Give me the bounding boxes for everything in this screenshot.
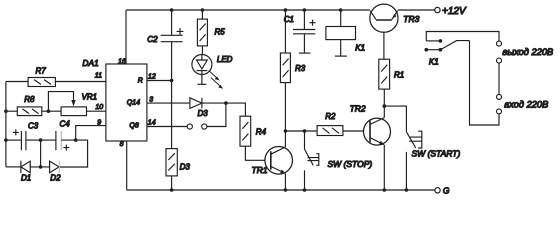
ground bar K1 (335, 55, 347, 57)
svg-text:14: 14 (148, 120, 156, 127)
svg-text:G: G (443, 186, 450, 196)
node dot D3/Q8 join (224, 101, 228, 105)
resistor R3 (280, 10, 305, 83)
wire mid node to R2 (285, 130, 317, 132)
wire TR3 base to R1 (383, 20, 385, 59)
wire left rail to C3 (6, 139, 22, 141)
relay coil K1 (326, 10, 365, 56)
wire TR2 emitter to bottom rail (383, 145, 385, 190)
wire pin16 stub from top rail to DA1 (125, 10, 127, 64)
node dot TR2 emitter / bottom rail (383, 188, 387, 192)
capacitor C2 (147, 10, 183, 44)
ground bar C1 (299, 52, 311, 54)
node dot C1 on top rail (303, 8, 307, 12)
node dot SW STOP tap (303, 129, 307, 133)
node dot left rail / C3 wire (4, 138, 8, 142)
wire pin3 Q14 to D3 diode (147, 102, 190, 104)
capacitor C1 (284, 10, 316, 34)
resistor R4 (240, 116, 267, 146)
transistor TR1 (252, 147, 293, 176)
svg-text:R3: R3 (295, 64, 306, 73)
wire pin8 DA1 to bottom rail (126, 141, 128, 190)
wire C1 to ground bar (303, 34, 305, 53)
wire R8 to VR1 (42, 110, 61, 112)
svg-text:10: 10 (95, 104, 103, 111)
node dot C3/C4 midpoint (39, 138, 43, 142)
top rail wire (V+ switched) (126, 9, 435, 11)
svg-text:D3: D3 (180, 162, 191, 171)
wire D1 to D2 (30, 166, 49, 168)
svg-text:R4: R4 (256, 128, 267, 137)
wire R3 bottom to mid node (284, 83, 286, 131)
svg-text:16: 16 (118, 58, 126, 65)
wire R2 to TR2 base (343, 130, 370, 132)
wire C3 to C4 (26, 139, 56, 141)
transistor TR3 (PNP) (370, 4, 420, 32)
svg-text:SW (START): SW (START) (412, 149, 461, 159)
switch SW (STOP) (305, 131, 373, 190)
svg-text:+12V: +12V (442, 6, 467, 17)
wire выход bottom to вход top (498, 63, 500, 94)
svg-text:вход 220В: вход 220В (504, 99, 548, 109)
resistor R2 (317, 112, 343, 136)
wire C4 right to riser (60, 140, 88, 167)
svg-text:D3: D3 (198, 109, 209, 118)
wire R1 to TR2 collector node (383, 89, 385, 106)
switch SW (START) (406, 131, 460, 190)
svg-text:K1: K1 (355, 44, 365, 53)
svg-text:R5: R5 (215, 28, 226, 37)
wire C2 bottom / reset node vertical (171, 42, 173, 149)
wire TR1 collector up to mid node (284, 131, 286, 147)
wire K1 common to вход terminal (470, 41, 500, 125)
svg-text:SW (STOP): SW (STOP) (328, 159, 373, 169)
wire pin14 Q8 to jumper (147, 126, 187, 128)
svg-text:C1: C1 (284, 15, 294, 24)
terminal вход top (497, 94, 502, 99)
node dot pin12 / C2 (170, 79, 174, 83)
terminal выход top (497, 41, 502, 46)
IC DA1 (CD4060) (82, 58, 155, 148)
svg-text:K1: K1 (429, 58, 439, 67)
node dot R3 on top rail (284, 8, 288, 12)
svg-text:LED: LED (217, 55, 233, 64)
svg-text:R8: R8 (24, 95, 35, 104)
node dot R1/TR2/SW START (383, 104, 387, 108)
wire pin11 R7 to DA1 (55, 81, 106, 83)
svg-text:C4: C4 (60, 120, 71, 129)
resistor R8 (17, 95, 42, 115)
wire R7 left to left rail (6, 81, 28, 83)
svg-text:TR2: TR2 (350, 103, 366, 113)
transistor TR2 (350, 103, 391, 145)
potentiometer VR1 (48, 92, 97, 116)
node dot K1 coil on top rail (339, 8, 343, 12)
wire pin12 R to C2 line (147, 80, 172, 82)
jumper terminal circle left (187, 124, 192, 129)
svg-text:VR1: VR1 (82, 92, 98, 101)
svg-text:R: R (138, 77, 143, 84)
node dot D1/D2 to C3/C4 (39, 165, 43, 169)
capacitor C4 (56, 120, 70, 151)
svg-text:D1: D1 (21, 174, 31, 183)
terminal +12V (435, 6, 467, 17)
node dot TR1 emitter / bottom rail (284, 188, 288, 192)
node dot pin9 / C4 (74, 138, 78, 142)
svg-text:C2: C2 (147, 35, 158, 44)
svg-text:11: 11 (95, 73, 102, 80)
resistor-box D3 (lower) (166, 149, 190, 176)
wire R4 to TR1 base (245, 146, 265, 160)
svg-text:8: 8 (120, 141, 124, 148)
terminal G (435, 186, 450, 196)
svg-text:TR3: TR3 (403, 14, 419, 24)
wire node to SW START (384, 106, 406, 132)
wire jumper to D3 node (207, 103, 226, 126)
resistor R5 (197, 10, 225, 46)
wire D3 cathode to R4 (202, 103, 246, 116)
svg-text:C3: C3 (28, 121, 39, 130)
wire pin10 VR1 to DA1 (87, 110, 106, 112)
relay contact K1 (425, 32, 500, 67)
svg-text:3: 3 (149, 96, 153, 103)
svg-text:R2: R2 (325, 112, 336, 121)
bottom rail wire (ground) (127, 189, 435, 191)
LED indicator (192, 46, 233, 89)
wire D3 box to bottom rail (171, 176, 173, 190)
resistor R1 (379, 59, 404, 89)
svg-text:12: 12 (148, 73, 156, 80)
diode D2 (50, 161, 61, 183)
wire TR1 emitter to bottom rail (284, 174, 286, 190)
svg-text:DA1: DA1 (82, 58, 98, 68)
node dot D3 / bottom rail (170, 188, 174, 192)
wire pin9 DA1 to C4 node (76, 126, 106, 141)
node dot SW START / bottom rail (405, 188, 409, 192)
node dot R8/VR1/wiper (47, 109, 51, 113)
capacitor C3 (13, 121, 39, 150)
node dot left rail / R8 (4, 109, 8, 113)
diode D1 (21, 161, 31, 183)
node dot R5 on top rail (201, 8, 205, 12)
diode D3 (Q14 output) (190, 98, 208, 118)
wire C3/C4 node down to D1/D2 node (40, 140, 42, 167)
svg-text:Q8: Q8 (129, 123, 138, 130)
terminal выход bottom (497, 58, 502, 63)
wire TR2 collector to R1 node (383, 106, 385, 118)
svg-text:D2: D2 (50, 174, 61, 183)
svg-text:TR1: TR1 (252, 165, 268, 175)
wire left rail (5, 82, 7, 167)
node dot C2 on top rail (170, 8, 174, 12)
wire D1 row from left rail (6, 166, 21, 168)
svg-text:R1: R1 (394, 71, 404, 80)
resistor R7 (28, 67, 55, 87)
terminal вход bottom (497, 109, 502, 114)
node dot SW STOP / bottom rail (303, 188, 307, 192)
svg-text:Q14: Q14 (127, 100, 140, 107)
jumper terminal circle right (202, 124, 207, 129)
node dot mid node (R3/TR1/R2) (284, 129, 288, 133)
svg-text:R7: R7 (36, 67, 47, 76)
wire R8 left lead (6, 110, 17, 112)
svg-text:выход 220В: выход 220В (502, 47, 553, 57)
